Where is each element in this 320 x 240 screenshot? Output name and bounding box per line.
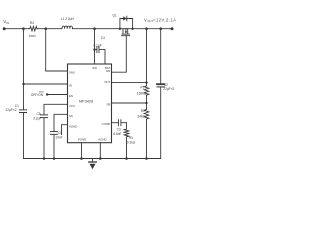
capacitor C2 [160, 29, 162, 84]
svg-text:0.1µF: 0.1µF [94, 44, 102, 48]
svg-text:22µF×2: 22µF×2 [6, 108, 17, 112]
node junction R1 chain top [145, 27, 148, 30]
inductor L1 [62, 26, 72, 29]
node OFF/ON terminal [46, 93, 48, 95]
wire SW vertical to IC [94, 29, 96, 64]
wire EN [47, 94, 67, 96]
wire Q1 to VOUT rail [133, 28, 172, 30]
IC U1 MP3428 box [68, 64, 112, 143]
svg-text:AGND: AGND [98, 138, 106, 142]
svg-text:OFF/ON: OFF/ON [31, 93, 44, 97]
svg-text:169kΩ: 169kΩ [137, 92, 147, 96]
svg-text:R4: R4 [30, 21, 34, 25]
svg-text:COMP: COMP [102, 122, 111, 126]
node junction R3 bottom [125, 157, 128, 160]
svg-text:22µF×3: 22µF×3 [163, 87, 174, 91]
svg-text:C3: C3 [117, 128, 121, 132]
node junction SNS [44, 27, 47, 30]
svg-text:MP3428: MP3428 [79, 99, 93, 103]
svg-text:R3: R3 [129, 136, 133, 140]
svg-text:VIN: VIN [3, 19, 9, 25]
wire VIN to R4 [4, 28, 29, 30]
resistor R1 [144, 86, 149, 95]
resistor R4 [29, 26, 38, 31]
capacitor C4 [95, 49, 97, 51]
wire Q1 gate to DR pin [112, 36, 127, 72]
svg-text:C4: C4 [101, 36, 105, 40]
resistor R2 [144, 110, 149, 120]
node junction AGND [99, 157, 102, 160]
capacitor C6 [51, 131, 58, 133]
node junction C5 bottom [43, 157, 46, 160]
wire VCC [44, 104, 68, 158]
wire PGND pin [81, 143, 83, 159]
node junction C4 tap [93, 48, 95, 50]
svg-text:R1: R1 [140, 85, 144, 89]
node junction R2 bottom [145, 157, 148, 160]
svg-text:VCC: VCC [69, 104, 75, 108]
svg-text:R2: R2 [141, 109, 145, 113]
capacitor C5 [41, 114, 48, 116]
svg-text:PGND: PGND [78, 138, 86, 142]
svg-text:L1 2.2µH: L1 2.2µH [61, 17, 75, 21]
wire left vertical VIN rail [23, 29, 25, 159]
wire AGND stub [62, 125, 68, 135]
transistor Q1 MOSFET [122, 29, 124, 34]
wire FB [112, 102, 147, 104]
node junction SW [93, 27, 96, 30]
svg-text:10nF: 10nF [55, 135, 62, 139]
svg-text:C5: C5 [37, 112, 41, 116]
svg-text:AGND: AGND [69, 124, 77, 128]
svg-text:34kΩ: 34kΩ [137, 115, 145, 119]
node junction C2 top [159, 27, 162, 30]
ground [92, 159, 94, 162]
svg-text:SS: SS [69, 114, 73, 118]
svg-text:C6: C6 [58, 131, 62, 135]
node VIN terminal [3, 27, 6, 30]
node junction OUT/R1 [145, 81, 147, 83]
wire SNS [46, 29, 68, 71]
svg-text:DR: DR [106, 69, 110, 73]
wire L1 to Q1 (SW node) [73, 28, 120, 30]
svg-text:VOUT=12V,2.1A: VOUT=12V,2.1A [144, 17, 176, 23]
svg-text:9.1kΩ: 9.1kΩ [127, 141, 136, 145]
wire bottom ground rail [24, 158, 161, 160]
wire SS [54, 114, 68, 158]
wire R4 to L1 [37, 28, 62, 30]
transistor Q1 body diode [120, 19, 133, 29]
node junction C6 bottom [53, 157, 56, 160]
svg-text:SW: SW [92, 66, 97, 70]
wire feedback chain [146, 29, 148, 86]
node junction IN [22, 83, 24, 85]
svg-text:EN: EN [69, 94, 73, 98]
wire COMP [112, 122, 119, 124]
node VOUT terminal [171, 27, 174, 30]
svg-text:FB: FB [107, 102, 111, 106]
svg-text:6.8nF: 6.8nF [113, 132, 121, 136]
wire IN [24, 83, 68, 85]
node junction VIN/C1 [22, 27, 25, 30]
svg-text:SNS: SNS [69, 71, 75, 75]
svg-text:4mΩ: 4mΩ [29, 34, 36, 38]
resistor R3 [124, 123, 129, 159]
svg-text:2.2µF: 2.2µF [33, 117, 41, 121]
wire AGND pin [99, 143, 101, 159]
wire SW node rail under Q1 [120, 28, 133, 30]
svg-text:IN: IN [69, 84, 72, 88]
node junction FB [145, 102, 147, 104]
capacitor C3 [117, 120, 119, 126]
node junction PGND [80, 157, 83, 160]
wire OUT [112, 82, 147, 84]
capacitor C1 [20, 109, 27, 111]
svg-text:Q1: Q1 [113, 14, 117, 18]
svg-text:OUT: OUT [104, 80, 110, 84]
